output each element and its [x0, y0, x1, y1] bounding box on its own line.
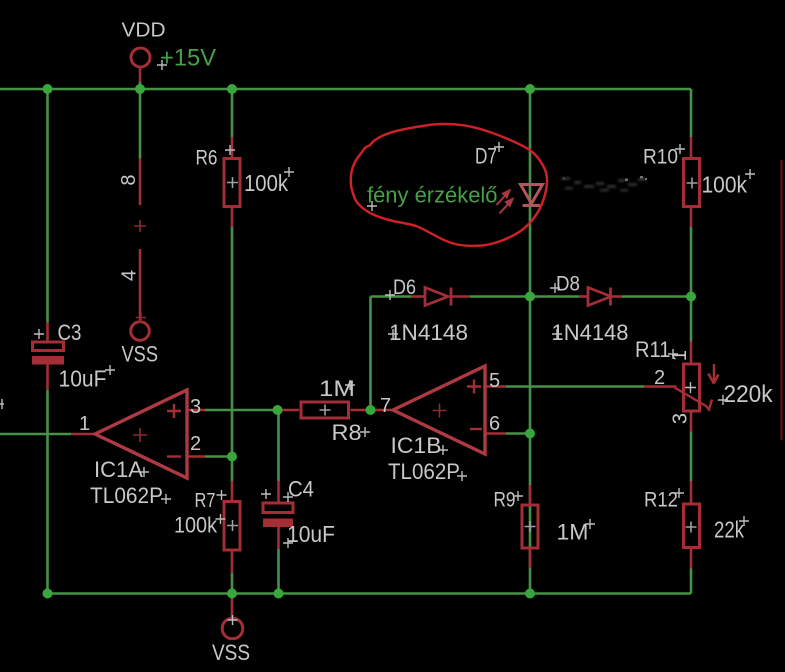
- svg-text:100k: 100k: [244, 170, 288, 196]
- svg-text:fény érzékelő: fény érzékelő: [367, 183, 498, 208]
- svg-text:D8: D8: [556, 273, 580, 296]
- svg-text:220k: 220k: [724, 381, 774, 408]
- svg-text:1: 1: [79, 413, 90, 435]
- svg-text:1N4148: 1N4148: [552, 320, 629, 345]
- svg-text:R12: R12: [644, 488, 678, 512]
- svg-text:D7: D7: [475, 144, 497, 169]
- svg-text:1N4148: 1N4148: [389, 320, 468, 345]
- svg-text:R11: R11: [635, 337, 671, 362]
- svg-text:6: 6: [489, 413, 500, 435]
- svg-text:+15V: +15V: [160, 45, 216, 72]
- svg-text:5: 5: [489, 370, 500, 392]
- svg-text:1M: 1M: [557, 520, 589, 545]
- svg-text:10uF: 10uF: [59, 366, 107, 392]
- svg-text:D6: D6: [393, 276, 416, 299]
- svg-text:IC1A: IC1A: [94, 457, 143, 482]
- svg-text:100k: 100k: [702, 172, 748, 198]
- svg-text:100k: 100k: [174, 513, 218, 538]
- svg-text:R6: R6: [196, 146, 218, 170]
- svg-text:R10: R10: [643, 145, 678, 169]
- svg-text:8: 8: [118, 174, 140, 185]
- svg-text:TL062P: TL062P: [388, 459, 460, 484]
- svg-text:TL062P: TL062P: [90, 483, 163, 508]
- svg-text:4: 4: [119, 270, 141, 281]
- svg-text:10uF: 10uF: [287, 521, 335, 547]
- svg-text:R7: R7: [195, 490, 216, 512]
- svg-text:C3: C3: [58, 320, 82, 345]
- svg-text:2: 2: [654, 367, 665, 389]
- svg-text:IC1B: IC1B: [391, 433, 442, 458]
- svg-text:C4: C4: [288, 477, 314, 502]
- svg-text:2: 2: [190, 433, 201, 455]
- svg-text:3: 3: [190, 396, 201, 418]
- svg-text:R8: R8: [332, 420, 362, 445]
- svg-text:VSS: VSS: [122, 342, 159, 367]
- svg-text:7: 7: [380, 395, 391, 417]
- svg-text:VSS: VSS: [212, 640, 250, 665]
- svg-text:3: 3: [670, 413, 692, 424]
- svg-text:R9: R9: [494, 488, 516, 512]
- svg-text:VDD: VDD: [122, 20, 166, 42]
